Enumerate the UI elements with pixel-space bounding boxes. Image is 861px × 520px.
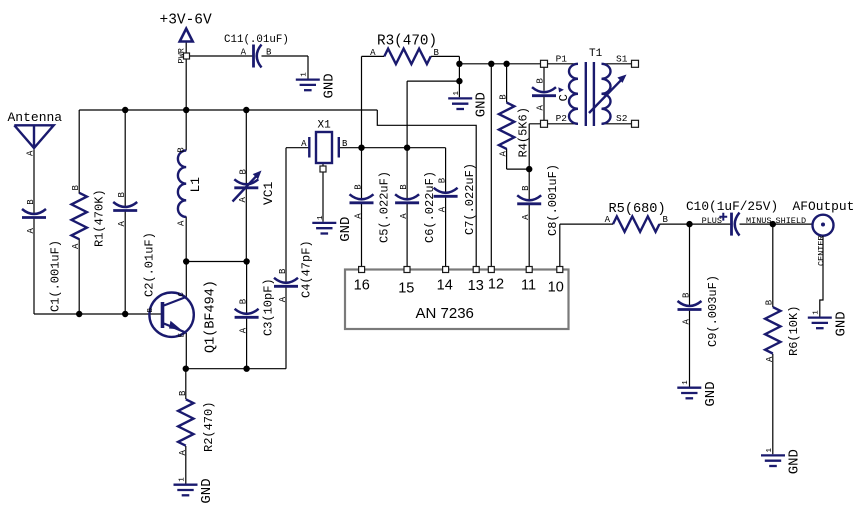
svg-text:C3(10pF): C3(10pF) [262,278,276,336]
ground AFOutput shield [808,310,850,337]
capacitor C6 [395,194,419,203]
wire C9 column [689,224,691,387]
capacitor C7 [434,188,458,197]
svg-text:A: A [278,296,288,302]
wire C11 row y=56 [190,56,309,79]
wire C7 column [445,148,447,267]
crystal X1 [309,132,339,163]
capacitor C9 [678,301,702,310]
ground C9 [677,380,719,407]
port pin 14 [443,267,449,273]
wire antenna column [33,148,35,314]
svg-text:B: B [238,169,248,175]
svg-text:A: A [399,213,409,219]
svg-text:A: A [521,214,531,220]
resistor R3 [384,49,430,64]
svg-text:R1(470K): R1(470K) [93,189,107,247]
variable capacitor VC1 [233,171,262,202]
svg-text:B: B [147,308,155,313]
svg-text:R4(5K6): R4(5K6) [517,107,531,157]
svg-text:C2(.01uF): C2(.01uF) [143,232,157,297]
ground X1 [312,215,354,242]
port pin 10 [557,267,563,273]
capacitor C5 [350,194,374,203]
wire AF center to GND [820,236,823,317]
port pin 16 [359,267,365,273]
capacitor C8 [517,195,541,204]
svg-text:B: B [399,184,409,190]
svg-text:P1: P1 [556,54,568,65]
svg-text:A: A [438,206,448,212]
svg-text:14: 14 [437,278,453,294]
node VC1/C3 junction [243,258,249,264]
wire R3 B lead [431,56,460,63]
svg-text:16: 16 [354,278,370,294]
svg-text:B: B [26,199,36,205]
capacitor C4 [274,278,298,287]
node X1 row junction C6 [404,145,410,151]
capacitor C3 [235,309,259,318]
wire PWR column [185,42,187,110]
resistor R4 [499,103,514,149]
svg-text:SHIELD: SHIELD [776,216,807,226]
svg-text:Antenna: Antenna [8,110,63,125]
svg-text:A: A [238,197,248,203]
svg-text:S2: S2 [616,113,628,124]
svg-text:A: A [765,356,775,362]
wire emitter [185,333,187,369]
node R4/P2/C8 junction [526,166,532,172]
port pin 15 [404,267,410,273]
wire C8 column [528,169,530,266]
wire pin12 column [490,64,492,267]
node base row junction R1 [76,311,82,317]
svg-text:R5(680): R5(680) [609,202,666,217]
node L1/collector junction [183,258,189,264]
svg-text:A: A [354,213,364,219]
wire trimmer cap C leads [543,67,545,120]
resistor R5 [613,216,659,231]
svg-text:B: B [342,139,348,149]
svg-text:AN 7236: AN 7236 [416,305,474,322]
wire y=261.5 row [186,261,246,263]
node gnd branch junction [456,78,462,84]
port pin 11 [526,267,532,273]
node bus junction VC1 [243,107,249,113]
svg-text:PLUS: PLUS [702,216,722,226]
node top bus junction R3B [456,61,462,67]
svg-text:MINUS: MINUS [746,216,772,226]
wire VC1 column [245,110,247,262]
svg-text:B: B [178,390,188,396]
wire collector [185,262,187,297]
svg-text:C6(.022uF): C6(.022uF) [423,171,437,243]
svg-text:B: B [663,215,669,225]
svg-text:R6(10K): R6(10K) [787,306,801,356]
svg-text:C: C [178,292,186,297]
svg-text:A: A [71,243,81,249]
wire P2 link [529,124,540,169]
svg-text:R3(470): R3(470) [377,34,437,50]
wire bus step to pin13 [377,110,476,267]
svg-text:C9(.003uF): C9(.003uF) [706,275,720,347]
svg-text:A: A [605,215,611,225]
svg-text:PWR: PWR [177,48,187,63]
ground R3 bus [448,91,490,118]
port S2 [632,120,639,127]
port pin 12 [488,267,494,273]
svg-text:A: A [682,319,692,325]
svg-text:C10(1uF/25V): C10(1uF/25V) [686,199,778,214]
svg-text:B: B [71,185,81,191]
node bus junction C2 [122,107,128,113]
wire gnd drop and branch y=81.1 [407,64,459,98]
svg-text:B: B [536,78,546,84]
port S1 [632,60,639,67]
wire C4 column [285,148,287,369]
svg-text:+3V-6V: +3V-6V [160,12,213,28]
svg-text:C1(.001uF): C1(.001uF) [49,240,63,312]
node emitter junction [183,366,189,372]
svg-text:B: B [177,147,187,153]
ground R2 [174,477,216,504]
node X1 row junction C5 [358,145,364,151]
resistor R6 [765,307,780,353]
svg-text:12: 12 [488,277,504,293]
wire X1 bottom to GND [322,163,324,222]
svg-text:B: B [521,185,531,191]
node R6 top junction [770,221,776,227]
svg-text:X1: X1 [318,120,332,132]
svg-text:10: 10 [548,280,564,296]
ground R6 [761,448,803,475]
node bus junction PWR/L1 [183,107,189,113]
svg-text:E: E [179,333,187,338]
wire R4 column [507,64,530,169]
svg-text:C11(.01uF): C11(.01uF) [224,34,289,46]
svg-text:S1: S1 [616,54,628,65]
wire C6 column [406,81,408,266]
power symbol +3V-6V [180,29,193,42]
svg-text:B: B [239,298,249,304]
svg-text:A: A [26,150,36,156]
connector AFOutput [813,215,834,236]
port P1 [541,60,548,67]
node top bus junction R4 [503,61,509,67]
wire C10 B to connector [740,223,813,225]
wire transformer primary leads [548,64,579,124]
node C3 bottom junction [243,366,249,372]
svg-text:A: A [301,139,307,149]
svg-text:B: B [266,48,272,58]
wire transformer secondary leads [602,64,632,124]
wire pin10 to R5 [560,224,613,266]
svg-text:C5(.022uF): C5(.022uF) [378,171,392,243]
wire R1 column [78,110,80,314]
wire X1 left lead [286,147,309,149]
wire top bus y=63.8 [459,63,540,65]
svg-text:C7(.022uF): C7(.022uF) [463,163,477,235]
svg-text:A: A [536,105,546,111]
svg-text:A: A [499,151,509,157]
resistor R1 [72,193,87,239]
wire R5 B to C10 [659,223,731,225]
svg-text:B: B [438,177,448,183]
port X1 ground pin [320,166,326,172]
node C9 top junction [686,221,692,227]
wire R2 column [185,369,187,484]
wire C5 column [361,148,363,267]
wire C2 column [124,110,126,314]
wire R6 column [772,224,774,454]
resistor R2 [178,399,193,445]
svg-text:B: B [278,268,288,274]
wire L1 column [185,110,187,262]
svg-text:T1: T1 [589,48,603,60]
wire main bus y=110 [79,109,377,111]
svg-text:A: A [370,48,376,58]
wire X1 right row to C7 [339,147,446,149]
port pin 13 [473,267,479,273]
port PWR [184,53,190,59]
svg-text:A: A [26,228,36,234]
svg-text:C: C [557,94,571,101]
inductor L1 [178,151,186,217]
svg-text:Q1(BF494): Q1(BF494) [204,280,219,353]
svg-text:P2: P2 [556,113,568,124]
capacitor C10 [719,213,739,236]
svg-text:R2(470): R2(470) [202,402,216,452]
svg-text:A: A [117,221,127,227]
svg-text:A: A [177,220,187,226]
ground C11 [296,72,338,99]
op-amp U1 AN7236 box [345,270,569,330]
capacitor C1 [22,209,46,218]
svg-text:B: B [434,48,440,58]
node base row junction C2 [122,311,128,317]
transformer T1 [569,62,627,126]
wire base row y=314 [34,313,151,315]
svg-text:13: 13 [468,278,484,294]
svg-text:L1: L1 [188,177,203,193]
svg-text:C8(.001uF): C8(.001uF) [546,164,560,236]
port P2 [541,120,548,127]
svg-text:A: A [178,450,188,456]
svg-text:B: B [765,299,775,305]
wire y=368.7 row [186,368,286,370]
svg-text:15: 15 [398,281,414,297]
transistor Q1 [149,293,193,337]
wire C3 column [246,262,248,369]
antenna [14,125,53,148]
svg-text:C4(47pF): C4(47pF) [300,240,314,298]
svg-text:11: 11 [521,278,536,294]
svg-text:A: A [239,327,249,333]
wire R3 A lead to C5 column [362,56,385,147]
svg-text:B: B [499,94,509,100]
node top bus junction pin12 [488,61,494,67]
svg-text:AFOutput: AFOutput [793,199,855,214]
trimmer capacitor C on transformer [532,87,564,96]
svg-text:VC1: VC1 [261,181,276,205]
svg-text:B: B [117,192,127,198]
svg-text:A: A [241,48,247,58]
capacitor C2 [113,202,137,211]
svg-text:CENTER: CENTER [817,235,827,266]
svg-text:B: B [682,292,692,298]
capacitor C11 [254,45,262,68]
svg-text:B: B [354,184,364,190]
